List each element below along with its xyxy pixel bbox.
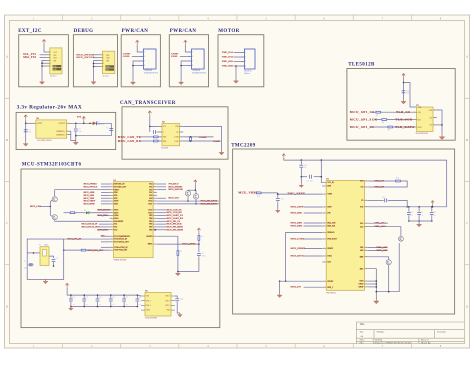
wire [94, 65, 99, 67]
svg-text:C15: C15 [421, 212, 424, 214]
wires mcu left g3 [101, 235, 110, 237]
svg-text:U1: U1 [114, 180, 116, 182]
MCU pin names [114, 183, 153, 252]
svg-text:OA1: OA1 [360, 222, 364, 225]
wire [177, 302, 180, 313]
capacitor C9 [197, 252, 201, 254]
svg-text:Y1: Y1 [39, 245, 41, 247]
wire [40, 54, 46, 56]
svg-text:SCL: SCL [54, 55, 57, 57]
wire [234, 56, 241, 58]
svg-text:U6: U6 [36, 118, 38, 120]
diode D2 TVS [93, 121, 97, 125]
wire [374, 119, 381, 121]
junction [41, 62, 43, 64]
wire Q5 stub [397, 227, 401, 237]
svg-text:R7: R7 [388, 130, 390, 132]
ground (VS caps) [418, 221, 420, 223]
wire [40, 57, 46, 59]
svg-text:A: A [6, 56, 8, 59]
capacitor C10 [300, 160, 302, 164]
svg-text:OB2: OB2 [360, 250, 363, 252]
svg-text:C3: C3 [106, 127, 108, 129]
ground (bypass rail) [70, 307, 72, 309]
wire Q4 to row B [195, 199, 197, 204]
svg-text:MCU_SWCLK: MCU_SWCLK [76, 56, 94, 59]
svg-text:PDN_UART: PDN_UART [327, 238, 337, 241]
svg-text:PA1: PA1 [114, 223, 117, 226]
svg-text:PA6: PA6 [149, 188, 152, 191]
resistor R5 [376, 111, 381, 113]
svg-text:ENN_2: ENN_2 [327, 287, 333, 289]
svg-text:MCU_SPI_MOSI: MCU_SPI_MOSI [166, 229, 183, 231]
power port VM [431, 201, 434, 205]
svg-text:C24: C24 [180, 299, 183, 301]
svg-text:PA3: PA3 [114, 228, 117, 231]
svg-text:MCU_PB11: MCU_PB11 [97, 215, 108, 217]
svg-text:MCU_CAN_RX: MCU_CAN_RX [118, 139, 142, 143]
power port VIN [24, 115, 27, 119]
wire [93, 54, 99, 56]
transistor Q3 [185, 191, 190, 196]
svg-text:PA9: PA9 [149, 197, 152, 200]
wire [137, 45, 139, 52]
net labels right group2 [166, 208, 183, 231]
svg-text:GNDP: GNDP [358, 287, 363, 289]
gnd rows [369, 280, 377, 282]
svg-text:PA0-WKUP: PA0-WKUP [114, 220, 123, 223]
svg-text:MCU_DIR: MCU_DIR [291, 212, 303, 215]
svg-text:C20: C20 [99, 297, 102, 299]
wire [304, 206, 323, 208]
svg-text:CANH: CANH [199, 136, 206, 139]
wire [177, 236, 179, 250]
svg-text:22u: 22u [29, 132, 32, 134]
ground (PWR/CAN) [180, 80, 182, 82]
svg-text:PA11: PA11 [148, 202, 152, 205]
svg-text:4P-Screw: 4P-Screw [244, 73, 251, 75]
connector CAN/power socket [192, 49, 205, 69]
capacitor C1 polarized [24, 129, 28, 131]
svg-text:COMMON_1: COMMON_1 [56, 131, 66, 133]
wire [304, 248, 323, 250]
svg-text:Header 6: Header 6 [50, 76, 57, 78]
svg-text:TLE5012B: TLE5012B [348, 62, 375, 67]
svg-text:R4: R4 [201, 236, 203, 238]
wire [304, 255, 323, 257]
svg-text:KF128-5.0: KF128-5.0 [244, 71, 252, 73]
wire [372, 111, 376, 113]
svg-text:PWR/CAN: PWR/CAN [170, 29, 197, 34]
power port (mcu right top) [194, 180, 197, 184]
svg-text:OA2: OA2 [360, 225, 364, 228]
svg-text:GND2: GND2 [359, 284, 364, 286]
svg-text:SPREAD: SPREAD [327, 231, 335, 234]
svg-text:NC: NC [176, 132, 178, 134]
svg-text:STEP: STEP [327, 207, 331, 209]
junction [53, 265, 55, 267]
svg-text:MCU_AIN1: MCU_AIN1 [84, 194, 95, 197]
svg-text:100n: 100n [202, 255, 206, 257]
svg-text:VDD_1: VDD_1 [165, 296, 170, 298]
svg-text:MCU_NRST: MCU_NRST [182, 243, 196, 246]
wire [140, 136, 153, 138]
svg-text:PB5: PB5 [149, 221, 152, 223]
wire Q2 emitter [55, 219, 110, 222]
svg-text:PB3: PB3 [149, 215, 152, 217]
svg-text:CPI: CPI [361, 187, 364, 189]
svg-text:File:: File: [360, 342, 365, 344]
svg-text:R10: R10 [257, 196, 260, 198]
svg-text:EXT_I2C: EXT_I2C [18, 29, 42, 34]
svg-text:OUTPUT: OUTPUT [59, 123, 66, 125]
svg-text:MCU_OSC_IN: MCU_OSC_IN [68, 239, 82, 241]
svg-text:U5: U5 [145, 291, 147, 293]
connector J1 header [50, 48, 62, 74]
svg-text:PD0-OSC_IN: PD0-OSC_IN [114, 184, 125, 186]
svg-text:VREF: VREF [327, 194, 332, 196]
wires right group1 [157, 183, 166, 185]
capacitor C11 bypass [83, 295, 85, 299]
svg-text:TMC_OA1: TMC_OA1 [222, 51, 234, 54]
svg-text:100n: 100n [72, 303, 75, 305]
junction [190, 136, 192, 138]
svg-text:C21: C21 [112, 297, 115, 299]
capacitor C13 [276, 198, 280, 200]
svg-text:U2: U2 [326, 179, 328, 181]
svg-text:MCU_DIAG: MCU_DIAG [291, 255, 304, 258]
wire [42, 62, 46, 64]
vs caps bottom rail [409, 220, 432, 222]
resistor R2 led [64, 212, 71, 214]
svg-text:PB12: PB12 [114, 210, 118, 212]
wire [304, 222, 323, 224]
svg-text:TLE5012B E1000: TLE5012B E1000 [416, 133, 429, 135]
junction [177, 271, 179, 273]
wire [94, 63, 99, 65]
row B wire [157, 203, 219, 205]
svg-text:C7: C7 [24, 261, 26, 263]
svg-text:MCU_CAN_TX: MCU_CAN_TX [166, 208, 182, 211]
svg-text:PB2: PB2 [114, 198, 117, 200]
svg-text:MCU_SPI_MOSI: MCU_SPI_MOSI [201, 201, 218, 203]
capacitor C14 bypass [123, 295, 125, 299]
svg-text:WJ2EDGK: WJ2EDGK [144, 70, 153, 72]
svg-text:MCU-STM32F103CBT6: MCU-STM32F103CBT6 [22, 163, 82, 168]
spread wire [286, 233, 323, 282]
MCU pin numbers [110, 183, 156, 251]
capacitor C8 [52, 258, 56, 260]
svg-text:MCU_SPI_CS: MCU_SPI_CS [166, 221, 180, 223]
ground (reg in) [25, 142, 27, 144]
wire [180, 56, 188, 58]
ground (crystal) [45, 279, 47, 281]
capacitor VS C15 [418, 207, 420, 212]
junction [441, 124, 443, 126]
resistor R120 termination [153, 136, 158, 138]
ground (TLE bypass) [403, 100, 405, 102]
svg-text:C23: C23 [139, 297, 142, 299]
svg-text:PA4: PA4 [149, 183, 152, 186]
svg-text:100n: 100n [99, 303, 102, 305]
svg-text:100u: 100u [421, 215, 424, 217]
svg-text:1u: 1u [304, 167, 306, 169]
svg-text:Sheet of: Sheet of [421, 339, 429, 342]
svg-text:R24: R24 [396, 178, 399, 180]
svg-text:MCU_SPI_SCK: MCU_SPI_SCK [350, 117, 378, 121]
svg-text:3V3_MCU: 3V3_MCU [168, 184, 179, 186]
svg-text:U7: U7 [416, 105, 418, 107]
capacitor C16 [402, 90, 406, 92]
svg-text:MCU_SPI_MISO: MCU_SPI_MISO [166, 226, 183, 228]
svg-text:R6: R6 [382, 122, 384, 124]
svg-text:TMC_OB2: TMC_OB2 [376, 249, 388, 252]
wire mcu left g1 [101, 192, 110, 194]
junction [25, 123, 27, 125]
wire [150, 115, 158, 126]
junction [75, 123, 77, 125]
ground (TMC en) [279, 293, 281, 295]
svg-text:Revision: Revision [437, 331, 446, 334]
junction [403, 82, 405, 84]
wire BRA row [369, 269, 377, 299]
wire vcc cap branch [149, 126, 151, 132]
svg-text:MCU_VREF: MCU_VREF [84, 201, 96, 203]
wire CANL [183, 140, 221, 142]
wire [26, 122, 32, 124]
wire [140, 140, 153, 142]
svg-text:COMMON_2: COMMON_2 [56, 134, 66, 136]
svg-text:MCU_OSC32_IN: MCU_OSC32_IN [82, 224, 98, 226]
svg-text:MCU_UART_RX: MCU_UART_RX [166, 217, 183, 220]
wire g4 row1 [101, 246, 110, 248]
svg-text:3V3: 3V3 [106, 69, 109, 71]
svg-text:Size: Size [360, 331, 364, 334]
wire [198, 244, 200, 252]
ground (DEBUG) [93, 80, 95, 82]
wire [44, 44, 46, 52]
wire [40, 205, 50, 207]
wire [437, 110, 442, 135]
wire [371, 126, 388, 128]
wires mcu left g2 [98, 209, 110, 211]
svg-text:TLE_DATA: TLE_DATA [395, 125, 415, 129]
svg-text:PC15-OSC32_OUT: PC15-OSC32_OUT [114, 241, 129, 243]
wire [195, 190, 197, 193]
motor out rows OA [369, 222, 389, 224]
svg-text:Title: Title [360, 323, 366, 326]
svg-text:TLE_CS: TLE_CS [396, 110, 410, 114]
svg-text:VCP: VCP [360, 206, 364, 208]
svg-text:MCU_INDEX: MCU_INDEX [291, 247, 306, 250]
svg-text:MCU_OSC32_OUT: MCU_OSC32_OUT [82, 227, 101, 229]
capacitor C15 bypass [136, 295, 138, 299]
wire [198, 241, 200, 245]
svg-text:TMC_OB1: TMC_OB1 [222, 61, 234, 63]
wire mcu left g1 [101, 189, 110, 191]
svg-text:100n: 100n [433, 215, 436, 217]
wire [279, 281, 281, 293]
row A wire [157, 200, 219, 202]
svg-text:C22: C22 [382, 197, 385, 199]
svg-text:PA5: PA5 [149, 185, 152, 188]
wire nrst pullup row [157, 235, 178, 237]
svg-text:GND: GND [359, 281, 364, 283]
capacitor C13 bypass [110, 295, 112, 299]
svg-text:DIAG: DIAG [327, 255, 332, 258]
svg-text:C18: C18 [72, 297, 75, 299]
svg-text:AT24C02-SSHM: AT24C02-SSHM [145, 317, 157, 320]
svg-text:PB4: PB4 [149, 218, 152, 220]
wire [181, 61, 188, 80]
junction [149, 126, 151, 128]
svg-text:PB14: PB14 [114, 215, 118, 217]
svg-text:10n: 10n [406, 93, 409, 95]
svg-text:8MHz: 8MHz [44, 245, 49, 247]
wire [198, 232, 200, 235]
wire [133, 61, 140, 80]
wire [94, 61, 99, 80]
power port (PWR/CAN) [184, 40, 187, 44]
svg-text:MCU_AIN0: MCU_AIN0 [84, 191, 95, 194]
ground (reg out) [75, 141, 77, 143]
svg-text:PC14-OSC32_IN: PC14-OSC32_IN [114, 239, 127, 241]
svg-text:C14: C14 [410, 212, 413, 214]
svg-text:MCU_SPI_MISO: MCU_SPI_MISO [201, 204, 218, 206]
svg-text:TJA1050T: TJA1050T [161, 146, 168, 149]
power port VCC (EXT_I2C) [42, 40, 45, 44]
wire [404, 83, 417, 108]
svg-text:C19: C19 [85, 297, 88, 299]
wire mcu left g1 [101, 183, 110, 185]
wire mcu left g1 [101, 197, 110, 199]
svg-text:C: C [466, 222, 468, 225]
svg-text:PB15: PB15 [114, 218, 118, 220]
wire mcu left g1 [101, 186, 110, 188]
svg-text:B: B [466, 139, 468, 142]
svg-text:D2: D2 [84, 210, 86, 212]
ground (PWR/CAN) [132, 80, 134, 82]
svg-text:C8: C8 [56, 258, 58, 260]
junction [132, 65, 134, 67]
svg-text:INDEX: INDEX [327, 248, 333, 250]
cap row to vs [369, 199, 384, 201]
ground (U5) [179, 313, 181, 315]
svg-text:F:\Projects\..\STM32F103-BLDC.: F:\Projects\..\STM32F103-BLDC.SchDoc [373, 342, 412, 344]
connector J2 debug header [102, 51, 114, 73]
bypass caps rail [66, 283, 69, 287]
transistor Q2 [52, 215, 57, 220]
green diode D2 on led row [75, 212, 86, 214]
svg-text:VDDA-VSSA_IN: VDDA-VSSA_IN [114, 246, 128, 249]
capacitor VS C14 [408, 207, 410, 212]
svg-text:D2: D2 [97, 122, 99, 124]
wire [304, 212, 323, 214]
resistor R4 [198, 236, 200, 241]
wire [27, 252, 40, 254]
svg-text:VDD_2: VDD_2 [146, 300, 151, 302]
wire top rail [284, 158, 447, 160]
junction [301, 159, 303, 161]
svg-text:PA8: PA8 [149, 194, 152, 197]
svg-text:KF2EDGK-3.96-2x2P: KF2EDGK-3.96-2x2P [144, 73, 158, 75]
wire mcu left g1 [101, 203, 110, 205]
svg-text:MCU_SPI_CS: MCU_SPI_CS [350, 110, 375, 114]
junction [285, 280, 287, 282]
wire [403, 78, 405, 100]
svg-text:Number: Number [377, 331, 385, 334]
crystal Y1 [40, 247, 49, 266]
wire [137, 294, 141, 297]
transistor Q5 [399, 236, 404, 241]
svg-text:MS2_AD1: MS2_AD1 [327, 225, 335, 228]
svg-text:C11 100n: C11 100n [307, 181, 313, 183]
svg-text:PA10: PA10 [148, 200, 152, 203]
svg-text:A: A [466, 56, 468, 59]
wire common pins to ground [71, 131, 76, 140]
transistor Q4 [193, 194, 198, 199]
MCU pins [110, 184, 158, 250]
transistor Q1 [52, 197, 57, 202]
wire [177, 256, 179, 272]
wire Q6 row [369, 257, 389, 260]
resistor R3 [177, 251, 179, 256]
IC U1 STM32F103CBT6 [114, 182, 154, 258]
resistor R9 osc [81, 249, 86, 251]
svg-text:VDD-VDD_OUT: VDD-VDD_OUT [114, 250, 128, 252]
wire gnd rail right [183, 126, 221, 150]
wire mcu left g1 [101, 194, 110, 196]
wire [49, 256, 54, 258]
svg-text:MCU_SWCLK: MCU_SWCLK [168, 189, 183, 191]
svg-text:MCU_STEP: MCU_STEP [291, 206, 304, 209]
capacitor C3 [109, 128, 113, 130]
svg-text:MCU_BOOT1: MCU_BOOT1 [97, 210, 110, 212]
junction [75, 135, 77, 137]
svg-text:TMC_OB2: TMC_OB2 [222, 66, 234, 68]
svg-text:CAN_TRANSCEIVER: CAN_TRANSCEIVER [120, 101, 176, 106]
wire [304, 238, 323, 240]
svg-text:CANL: CANL [213, 140, 220, 143]
svg-text:100n: 100n [85, 303, 88, 305]
svg-text:VDD_3: VDD_3 [165, 300, 170, 302]
power port (TLE5012B) [402, 74, 405, 78]
svg-text:TMC_OA2: TMC_OA2 [222, 56, 234, 59]
wire [235, 66, 237, 79]
wire mcu left g1 [101, 200, 110, 202]
junction [277, 193, 279, 195]
IC U5 eeprom [145, 292, 171, 316]
svg-text:Drawn By:: Drawn By: [421, 342, 432, 344]
power port (PWR/CAN) [136, 40, 139, 44]
svg-text:MCU_OSC_OUT: MCU_OSC_OUT [88, 250, 104, 252]
wire [93, 57, 99, 59]
junction [63, 249, 65, 251]
ground (TMC gnd) [375, 299, 377, 301]
svg-text:PD1-OSC_OUT: PD1-OSC_OUT [114, 186, 127, 188]
svg-text:STM32F103CBT6: STM32F103CBT6 [114, 260, 127, 262]
svg-text:CANL: CANL [123, 55, 130, 58]
svg-text:TMC2209-LA: TMC2209-LA [326, 292, 337, 295]
svg-text:U4: U4 [162, 122, 164, 124]
svg-text:TMC_OA2: TMC_OA2 [374, 225, 386, 228]
svg-text:CANL: CANL [171, 55, 178, 58]
wire [42, 60, 46, 80]
svg-text:VCC_IO: VCC_IO [327, 182, 334, 184]
svg-text:D: D [6, 305, 8, 308]
ground (EXT_I2C) [41, 80, 43, 82]
wire [304, 225, 323, 227]
